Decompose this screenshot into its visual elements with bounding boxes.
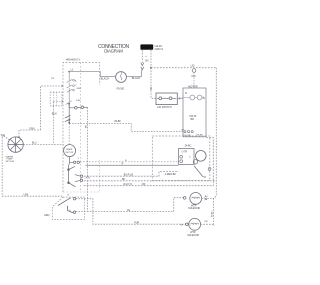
wire pump left drop — [2, 135, 63, 196]
start switch box SW-M — [179, 149, 195, 165]
ground symbol GRN — [145, 54, 149, 62]
node N1 junction — [150, 67, 152, 69]
svg-text:MOTOR: MOTOR — [66, 152, 74, 154]
svg-text:24-BC: 24-BC — [185, 144, 192, 147]
wire S3 upper to S2 solenoid drop — [76, 199, 186, 225]
svg-text:BLACK: BLACK — [101, 76, 110, 80]
wire timer L1 to fuse line — [69, 72, 101, 77]
svg-text:SOLENOID: SOLENOID — [188, 208, 200, 210]
svg-text:O-TR: O-TR — [182, 151, 188, 153]
wire right neutral bus — [214, 68, 217, 225]
svg-text:W-BK: W-BK — [211, 211, 213, 217]
unbalance switch S3 (pentagon) — [44, 195, 85, 220]
wire lid switch to valve box — [177, 97, 183, 99]
contact blade upper — [58, 198, 71, 206]
svg-text:OR: OR — [142, 184, 146, 186]
wire BLU riser — [53, 106, 55, 144]
terminal block TB1 (power cord block) — [140, 44, 163, 51]
wire harness run from timer to valve — [69, 124, 183, 132]
switch S1 lid switch box — [156, 93, 177, 109]
wire S3 lower YE run — [76, 198, 184, 212]
svg-text:TN: TN — [51, 78, 54, 80]
motor box M1 (drive motor, dashed) — [152, 136, 211, 181]
connector disconnect P1 (male/female arrows) — [141, 63, 144, 70]
timer box T1 (dashed) — [63, 57, 100, 192]
wire timer BU R-LB — [84, 172, 179, 177]
wire top run to right side — [151, 67, 216, 69]
wire cord right lead — [150, 50, 152, 68]
svg-text:GY: GY — [181, 130, 185, 132]
svg-text:GRN: GRN — [44, 214, 50, 217]
fuse F1 — [116, 72, 127, 91]
wire timer to motor R — [86, 164, 179, 166]
svg-text:UN: UN — [145, 58, 149, 62]
node L1 — [68, 71, 70, 73]
svg-text:WTR: WTR — [190, 232, 196, 234]
svg-text:WTR: WTR — [191, 205, 197, 207]
wire BLU from pump — [23, 144, 63, 146]
svg-text:PUR: PUR — [134, 223, 139, 225]
timer motor TM — [64, 124, 76, 165]
wire solenoid L1 right lead — [202, 197, 214, 199]
timer contact row 3 — [65, 104, 71, 124]
water valve box V1 — [183, 88, 206, 137]
motor M1 circle — [196, 151, 207, 162]
svg-text:ORN: ORN — [29, 128, 34, 130]
node timer feed dots — [68, 119, 70, 121]
push-to-start switch S2 — [69, 104, 87, 109]
svg-text:VIO: VIO — [191, 75, 195, 78]
svg-text:LID: LID — [191, 64, 195, 67]
svg-text:BK: BK — [122, 179, 126, 181]
svg-text:FUSE: FUSE — [117, 87, 125, 91]
svg-text:LID SWITCH: LID SWITCH — [157, 106, 172, 109]
svg-text:DIAGRAM: DIAGRAM — [104, 49, 123, 54]
svg-text:BR: BR — [191, 118, 195, 121]
svg-text:BLK: BLK — [52, 112, 57, 116]
svg-text:D: D — [185, 92, 187, 95]
timer contact row 1 — [67, 72, 75, 93]
wire fuse left to timer — [100, 76, 115, 78]
wire nut lead — [193, 72, 195, 88]
svg-text:CH: CH — [180, 224, 184, 226]
svg-text:GRN-S: GRN-S — [155, 47, 164, 51]
contact blade lower — [68, 206, 74, 213]
connector block CB1 (left of timer) — [50, 92, 62, 106]
wire TN stub — [54, 101, 64, 106]
svg-text:BLU: BLU — [32, 143, 37, 145]
solenoid L2 (cold valve) — [180, 218, 208, 237]
svg-text:4-BU: 4-BU — [76, 88, 81, 90]
svg-text:W-23-YL: W-23-YL — [123, 184, 133, 186]
wire cord left lead — [141, 50, 143, 63]
svg-text:#9-BK: #9-BK — [114, 121, 121, 123]
svg-text:BU R-LB: BU R-LB — [124, 175, 134, 177]
start lever — [194, 166, 206, 177]
wire fuse right to disconnect — [126, 70, 141, 77]
wire timer BK to right — [84, 180, 217, 182]
solenoid coil A — [190, 95, 195, 100]
svg-text:4-RED-BK: 4-RED-BK — [165, 173, 177, 176]
wire timer aux dashed — [80, 161, 179, 163]
wire ORN riser — [41, 86, 63, 130]
svg-text:DB: DB — [204, 221, 208, 223]
wire push start drop — [87, 107, 89, 211]
svg-text:1-BK: 1-BK — [76, 100, 81, 102]
svg-text:SOLENOID: SOLENOID — [187, 235, 199, 237]
wire solenoid L2 right lead — [201, 223, 214, 225]
wire right lead down to lid switch — [151, 68, 156, 99]
wire timer W-23-YL — [84, 138, 214, 186]
wire hop over — [86, 177, 90, 179]
timer lower contacts — [68, 161, 83, 187]
svg-text:YE: YE — [127, 210, 131, 212]
svg-text:1-BK: 1-BK — [23, 194, 29, 196]
wire nut circle — [192, 69, 196, 73]
svg-text:#06-#03 GY: #06-#03 GY — [66, 57, 80, 61]
svg-text:MOTOR: MOTOR — [6, 161, 15, 163]
timer contact row 2 — [66, 91, 72, 105]
title CONNECTION DIAGRAM — [98, 44, 129, 54]
pump motor M2 — [0, 135, 23, 162]
solenoid L1 (hot valve) — [183, 193, 208, 211]
wire ORN from pump — [19, 130, 41, 137]
terminal pins — [184, 131, 186, 133]
solenoid coil B — [197, 95, 202, 100]
